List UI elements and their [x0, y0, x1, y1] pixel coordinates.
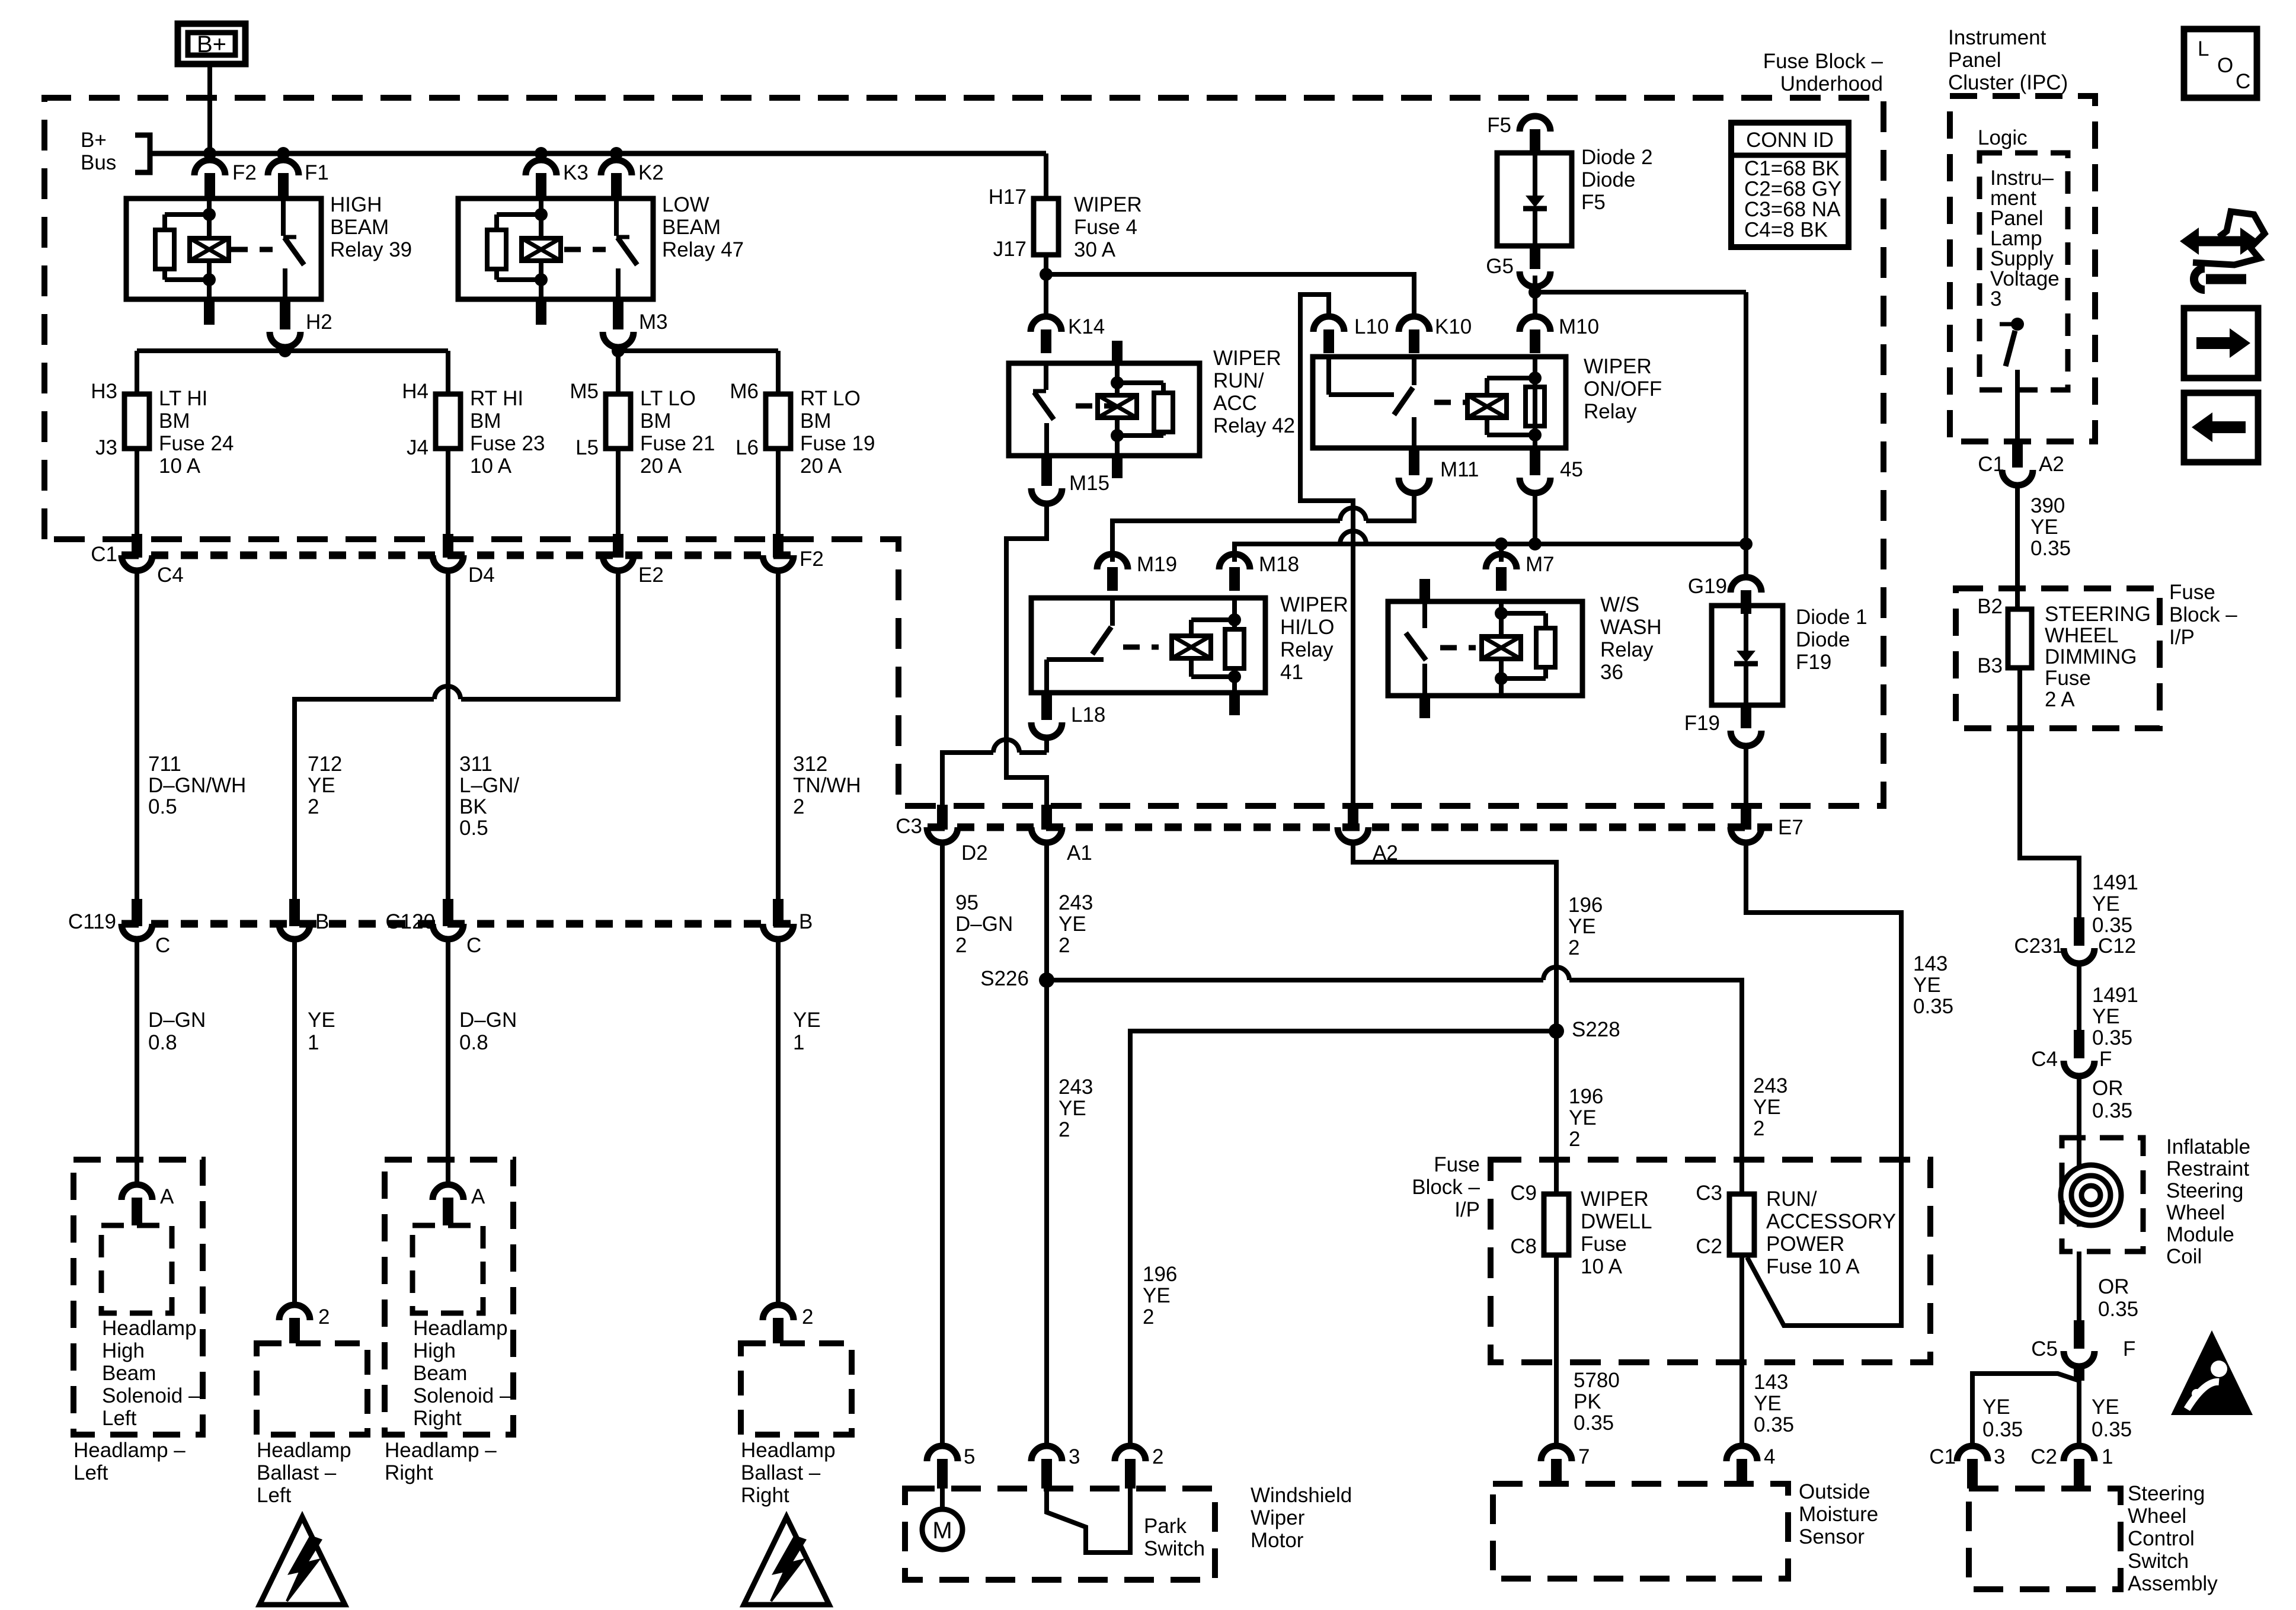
junction K2 bus: [610, 147, 623, 160]
relayOO switch: [1329, 357, 1414, 448]
svg-text:Bus: Bus: [81, 151, 116, 174]
connector 3: [1031, 1446, 1062, 1489]
svg-text:0.35: 0.35: [1574, 1411, 1614, 1435]
svg-text:M15: M15: [1069, 472, 1109, 495]
relay39 coil: [190, 238, 229, 261]
motor M symbol: [922, 1485, 962, 1550]
label headlamp left: [73, 1439, 186, 1484]
relay36 resistor: [1536, 628, 1555, 667]
warning triangle right: [744, 1517, 829, 1605]
svg-text:2: 2: [1152, 1445, 1163, 1468]
connector D4: [433, 534, 463, 571]
svg-text:Switch: Switch: [2128, 1550, 2189, 1573]
svg-text:10 A: 10 A: [159, 454, 201, 478]
wire 45 down: [1533, 493, 1537, 544]
svg-text:Diode: Diode: [1581, 168, 1635, 191]
connector K14: [1031, 316, 1061, 353]
svg-text:95: 95: [955, 891, 978, 914]
relay42 coil: [1098, 395, 1137, 418]
svg-text:Headlamp: Headlamp: [257, 1439, 351, 1462]
wire E2 jog to 712: [295, 571, 618, 899]
svg-text:WIPER: WIPER: [1581, 1188, 1649, 1211]
label circuit 196 mid: [1569, 1085, 1603, 1151]
svg-text:1: 1: [793, 1031, 804, 1054]
wire K2 drop: [614, 153, 619, 160]
label A right: [471, 1185, 485, 1208]
connector C231/C12: [2064, 917, 2094, 964]
svg-text:C8: C8: [1510, 1235, 1537, 1258]
svg-text:BM: BM: [470, 409, 501, 433]
svg-text:S228: S228: [1572, 1018, 1620, 1041]
wire dimming to C231: [2020, 668, 2079, 939]
connector 2 left: [279, 1289, 310, 1343]
svg-text:2: 2: [308, 795, 319, 818]
svg-text:Fuse Block –: Fuse Block –: [1763, 50, 1884, 73]
label circuit 243 upper: [1059, 891, 1093, 957]
svg-text:3: 3: [1994, 1445, 2005, 1468]
svg-text:2: 2: [1569, 1128, 1580, 1151]
svg-text:Left: Left: [257, 1484, 292, 1507]
svg-text:Relay: Relay: [1584, 400, 1637, 423]
svg-text:Ballast –: Ballast –: [741, 1461, 821, 1484]
svg-text:M10: M10: [1559, 315, 1599, 338]
svg-text:I/P: I/P: [2169, 626, 2195, 649]
svg-text:20 A: 20 A: [640, 454, 682, 478]
svg-text:BEAM: BEAM: [662, 216, 721, 239]
label D4: [468, 564, 495, 587]
connector A left: [121, 1179, 152, 1225]
svg-text:Headlamp: Headlamp: [741, 1439, 836, 1462]
svg-text:B+: B+: [81, 129, 107, 152]
svg-text:Headlamp –: Headlamp –: [385, 1439, 497, 1462]
svg-text:Moisture: Moisture: [1799, 1503, 1878, 1526]
svg-text:0.5: 0.5: [148, 795, 177, 818]
svg-text:B: B: [799, 910, 813, 933]
svg-text:0.35: 0.35: [1982, 1418, 2023, 1441]
rowC119 dotted line: [121, 920, 797, 928]
diode D1 symbol: [1734, 606, 1758, 705]
svg-text:3: 3: [1069, 1445, 1080, 1468]
prev arrow box: [2184, 393, 2258, 462]
svg-text:D–GN: D–GN: [955, 913, 1013, 936]
fuse RUN ACC: [1729, 1194, 1754, 1255]
wire H2 down: [283, 347, 287, 351]
svg-text:HI/LO: HI/LO: [1280, 616, 1334, 639]
svg-text:BM: BM: [159, 409, 190, 433]
svg-text:243: 243: [1059, 891, 1093, 914]
svg-text:A: A: [160, 1185, 174, 1208]
svg-text:YE: YE: [1568, 915, 1596, 938]
svg-text:YE: YE: [2030, 516, 2058, 539]
svg-text:L5: L5: [575, 436, 599, 459]
svg-text:F19: F19: [1684, 712, 1720, 735]
solenoid right inner box: [412, 1225, 483, 1313]
relayOO coil branch: [1487, 357, 1542, 448]
relayOO dash link: [1434, 400, 1470, 405]
relay41 dash link: [1123, 645, 1159, 650]
label K2: [638, 161, 664, 184]
svg-text:High: High: [413, 1339, 456, 1362]
svg-text:Fuse 23: Fuse 23: [470, 432, 545, 455]
svg-text:D4: D4: [468, 564, 495, 587]
svg-text:Left: Left: [73, 1461, 108, 1484]
svg-text:TN/WH: TN/WH: [793, 774, 861, 797]
label OR 0.35 b: [2098, 1275, 2138, 1321]
steering switch box: [1969, 1489, 2121, 1589]
svg-text:B+: B+: [197, 31, 226, 57]
svg-text:C2: C2: [2030, 1445, 2057, 1468]
svg-text:Relay 42: Relay 42: [1213, 414, 1295, 437]
connector E2: [603, 534, 634, 571]
label L10: [1354, 315, 1389, 338]
connector C1/C4: [121, 534, 152, 571]
label headlamp ballast right: [741, 1439, 836, 1507]
svg-text:Control: Control: [2128, 1527, 2195, 1550]
label headlamp right: [385, 1439, 497, 1484]
svg-text:712: 712: [308, 753, 342, 776]
label WIPER RUN/ACC Relay 42: [1213, 347, 1295, 437]
connector A right: [433, 1179, 463, 1225]
connector 4: [1726, 1446, 1757, 1484]
wire 312: [776, 571, 781, 899]
airbag warning triangle: [2171, 1330, 2253, 1415]
svg-text:Wheel: Wheel: [2166, 1201, 2225, 1224]
wire K3 drop: [539, 153, 543, 160]
svg-text:Right: Right: [385, 1461, 433, 1484]
IPC box: [1950, 96, 2095, 441]
svg-text:F19: F19: [1796, 651, 1831, 674]
label steering wheel control switch: [2128, 1482, 2218, 1595]
svg-text:YE: YE: [1753, 1096, 1781, 1119]
svg-text:H4: H4: [402, 380, 428, 403]
svg-text:C1: C1: [1929, 1445, 1956, 1468]
connector B right: [763, 899, 794, 939]
svg-text:Assembly: Assembly: [2128, 1572, 2218, 1595]
label WIPER HI/LO Relay 41: [1280, 593, 1348, 684]
label YE 035 left: [1982, 1395, 2023, 1441]
junction K3 bus: [535, 147, 548, 160]
label circuit 243 right: [1753, 1074, 1787, 1140]
svg-text:0.8: 0.8: [459, 1031, 488, 1054]
svg-text:2: 2: [802, 1305, 813, 1329]
label L5: [575, 436, 599, 459]
connector F1: [268, 160, 299, 197]
svg-text:2: 2: [793, 795, 804, 818]
svg-text:YE: YE: [308, 774, 335, 797]
svg-text:Headlamp: Headlamp: [413, 1317, 508, 1340]
svg-text:Sensor: Sensor: [1799, 1525, 1865, 1548]
svg-text:POWER: POWER: [1766, 1233, 1844, 1256]
label 5 pin: [964, 1445, 975, 1468]
svg-text:Cluster (IPC): Cluster (IPC): [1948, 71, 2068, 94]
svg-text:F: F: [2123, 1337, 2135, 1361]
svg-text:YE: YE: [308, 1009, 335, 1032]
svg-text:CONN ID: CONN ID: [1746, 129, 1834, 152]
svg-text:PK: PK: [1574, 1390, 1601, 1413]
svg-text:D2: D2: [961, 841, 988, 865]
svg-text:0.5: 0.5: [459, 817, 488, 840]
wire 390: [2015, 485, 2020, 609]
svg-text:Right: Right: [413, 1407, 462, 1430]
connector 2 right: [763, 1289, 794, 1343]
label F1: [305, 161, 329, 184]
headlamp solenoid right box: [385, 1160, 513, 1435]
label C2 sw: [2030, 1445, 2057, 1468]
svg-text:E2: E2: [638, 564, 664, 587]
label C231: [2014, 934, 2064, 958]
label S228: [1572, 1018, 1620, 1041]
svg-text:0.35: 0.35: [1754, 1413, 1794, 1436]
wire M7 up: [1499, 544, 1504, 562]
svg-text:2: 2: [1059, 934, 1070, 957]
label LOW BEAM Relay 47: [662, 193, 744, 261]
svg-text:YE: YE: [1754, 1392, 1782, 1415]
wiper motor box: [905, 1489, 1215, 1580]
svg-text:1: 1: [308, 1031, 319, 1054]
svg-text:YE: YE: [1913, 974, 1941, 997]
label J3: [95, 436, 117, 459]
svg-text:Fuse 19: Fuse 19: [800, 432, 875, 455]
label M6: [730, 380, 759, 403]
relay41 resistor: [1225, 629, 1244, 668]
wire bus to fuse4: [1044, 153, 1048, 199]
label G19: [1688, 575, 1727, 598]
label C4 col: [2031, 1048, 2058, 1071]
label M11: [1440, 458, 1479, 481]
svg-text:2: 2: [1143, 1305, 1154, 1329]
svg-text:2: 2: [955, 934, 967, 957]
connector 45: [1520, 448, 1550, 493]
fuse block IP box: [1491, 1160, 1930, 1362]
svg-text:312: 312: [793, 753, 827, 776]
svg-text:Park: Park: [1144, 1515, 1187, 1538]
wire C5 branch left: [1972, 1366, 2084, 1446]
svg-text:4: 4: [1764, 1445, 1775, 1468]
headlamp ballast right box: [741, 1343, 852, 1435]
relay39 resistor: [155, 230, 174, 269]
wire S226 to RUNACC: [1047, 980, 1742, 1194]
label HIGH BEAM Relay 39: [330, 193, 412, 261]
svg-text:C: C: [466, 934, 481, 957]
svg-text:Fuse: Fuse: [2045, 667, 2091, 690]
relay39 coil dead pin: [204, 299, 215, 325]
svg-text:3: 3: [1990, 287, 2001, 311]
svg-text:390: 390: [2030, 494, 2065, 517]
svg-text:C: C: [155, 934, 170, 957]
junction F2 bus: [203, 147, 216, 160]
svg-text:20 A: 20 A: [800, 454, 842, 478]
label A2: [1373, 841, 1398, 865]
wire highbeam distribution: [137, 351, 448, 394]
svg-text:M7: M7: [1526, 553, 1555, 576]
svg-text:BK: BK: [459, 795, 487, 818]
svg-text:YE: YE: [1059, 913, 1086, 936]
svg-text:M6: M6: [730, 380, 759, 403]
wire 5780: [1554, 1255, 1559, 1446]
connector M15: [1031, 456, 1062, 504]
svg-text:Block –: Block –: [1412, 1176, 1480, 1199]
label F2 row: [800, 548, 824, 571]
svg-text:B2: B2: [1977, 595, 2003, 618]
label C119: [68, 910, 116, 933]
svg-text:196: 196: [1569, 1085, 1603, 1108]
svg-text:C1: C1: [91, 543, 117, 566]
svg-text:LT LO: LT LO: [640, 387, 696, 410]
wire S226 down: [1044, 980, 1049, 1446]
svg-text:Fuse 4: Fuse 4: [1074, 216, 1137, 239]
svg-text:C4: C4: [157, 564, 184, 587]
svg-text:Diode 2: Diode 2: [1581, 146, 1653, 169]
relay41 coil branch: [1191, 598, 1241, 693]
svg-text:Relay 39: Relay 39: [330, 238, 412, 261]
connector 2 motor: [1115, 1446, 1146, 1489]
label C120 C: [466, 934, 481, 957]
svg-text:Fuse 21: Fuse 21: [640, 432, 715, 455]
junction M7 net: [1495, 537, 1508, 550]
svg-text:0.35: 0.35: [2092, 1099, 2132, 1122]
nav tool icon: [2180, 212, 2265, 290]
label fuse24: [159, 387, 234, 478]
svg-text:Panel: Panel: [1948, 49, 2001, 72]
coil spiral: [2061, 1164, 2121, 1227]
label Fuse Block IP right: [2169, 581, 2237, 649]
label Outside Moisture Sensor: [1799, 1480, 1878, 1548]
svg-text:Windshield: Windshield: [1251, 1484, 1352, 1507]
svg-text:RT HI: RT HI: [470, 387, 523, 410]
connector G5: [1520, 246, 1550, 287]
label C8: [1510, 1235, 1537, 1258]
svg-text:BM: BM: [800, 409, 832, 433]
svg-text:Fuse: Fuse: [1581, 1233, 1627, 1256]
svg-text:B3: B3: [1977, 654, 2003, 677]
svg-text:H3: H3: [91, 380, 117, 403]
label A left: [160, 1185, 174, 1208]
relay U47 box: [458, 199, 653, 299]
svg-text:LOW: LOW: [662, 193, 709, 216]
svg-text:45: 45: [1560, 458, 1583, 481]
svg-text:Left: Left: [102, 1407, 137, 1430]
label B3: [1977, 654, 2003, 677]
svg-text:0.8: 0.8: [148, 1031, 177, 1054]
wire 95 D-GN: [940, 843, 945, 1446]
connector L10: [1313, 316, 1344, 353]
label F b: [2123, 1337, 2135, 1361]
label E7: [1778, 816, 1803, 839]
connector C3/D2: [927, 805, 958, 843]
label 4 pin: [1764, 1445, 1775, 1468]
svg-text:A: A: [471, 1185, 485, 1208]
relay39 coil branch: [165, 199, 216, 299]
label F a: [2099, 1048, 2112, 1071]
IPC logic box: [1980, 153, 2068, 390]
label 45: [1560, 458, 1583, 481]
label circuit 143 E7: [1913, 952, 1953, 1018]
label F5: [1487, 114, 1511, 137]
svg-text:DWELL: DWELL: [1581, 1210, 1652, 1233]
label Windshield Wiper Motor: [1251, 1484, 1352, 1552]
svg-text:Headlamp: Headlamp: [102, 1317, 197, 1340]
label C120: [385, 910, 435, 933]
svg-text:10 A: 10 A: [1581, 1255, 1623, 1278]
svg-text:Fuse 24: Fuse 24: [159, 432, 234, 455]
svg-text:C3: C3: [1696, 1182, 1722, 1205]
relay39 switch: [283, 199, 304, 299]
diode D1 box: [1712, 606, 1783, 705]
label E2: [638, 564, 664, 587]
wire YE1 right: [776, 939, 781, 1305]
label 2 left: [318, 1305, 330, 1329]
relay47 resistor: [487, 230, 506, 269]
svg-text:Beam: Beam: [413, 1362, 467, 1385]
relay41 coil dead pin: [1229, 693, 1240, 715]
wire fuse19 to F2: [776, 449, 781, 534]
label fuse4: [1074, 193, 1142, 261]
label fuse19: [800, 387, 875, 478]
diode D2 symbol: [1523, 153, 1547, 246]
svg-text:0.35: 0.35: [2092, 1026, 2132, 1049]
label lamp supply voltage: [1990, 167, 2060, 311]
label circuit 196 lower: [1143, 1263, 1177, 1329]
label inflatable restraint coil: [2166, 1135, 2250, 1268]
svg-text:M3: M3: [639, 311, 668, 334]
svg-text:711: 711: [148, 753, 181, 776]
svg-text:Diode 1: Diode 1: [1796, 606, 1868, 629]
label C3 ip: [1696, 1182, 1722, 1205]
svg-text:O: O: [2217, 54, 2233, 77]
relay36 coil: [1482, 636, 1521, 659]
label M5: [570, 380, 599, 403]
next arrow box: [2184, 308, 2258, 378]
label C119 C: [155, 934, 170, 957]
svg-text:Module: Module: [2166, 1223, 2234, 1246]
label M15: [1069, 472, 1109, 495]
svg-text:C2: C2: [1696, 1235, 1722, 1258]
svg-text:WIPER: WIPER: [1213, 347, 1281, 370]
svg-text:M5: M5: [570, 380, 599, 403]
label C1 ipc: [1978, 453, 2004, 476]
relay U39 box: [126, 199, 321, 299]
park switch: [1047, 1489, 1130, 1553]
svg-text:BEAM: BEAM: [330, 216, 389, 239]
svg-text:OR: OR: [2098, 1275, 2129, 1298]
label J4: [407, 436, 428, 459]
label H4: [402, 380, 428, 403]
label C12: [2098, 934, 2136, 958]
svg-text:Fuse 10 A: Fuse 10 A: [1766, 1255, 1860, 1278]
label fuse23: [470, 387, 545, 478]
wire 1491 b: [2077, 964, 2081, 1051]
svg-text:F: F: [2099, 1048, 2112, 1071]
label C2 ip: [1696, 1235, 1722, 1258]
svg-text:J4: J4: [407, 436, 428, 459]
svg-text:DIMMING: DIMMING: [2045, 645, 2137, 668]
label K10: [1435, 315, 1472, 338]
svg-text:1491: 1491: [2092, 871, 2138, 894]
wire D-GN right: [446, 939, 450, 1179]
wire L18 to D2: [942, 738, 1047, 805]
wire M18 M7 G19 net: [1235, 544, 1746, 562]
label M10: [1559, 315, 1599, 338]
svg-text:Ballast –: Ballast –: [257, 1461, 337, 1484]
svg-text:S226: S226: [980, 967, 1029, 990]
svg-text:YE: YE: [1982, 1395, 2010, 1419]
label C3: [896, 815, 922, 838]
wire S228 to motor2: [1130, 1031, 1556, 1446]
headlamp ballast left box: [257, 1343, 367, 1435]
label Instrument Panel Cluster: [1948, 26, 2068, 94]
wire G5 to M10: [1533, 276, 1537, 316]
svg-text:L6: L6: [736, 436, 759, 459]
